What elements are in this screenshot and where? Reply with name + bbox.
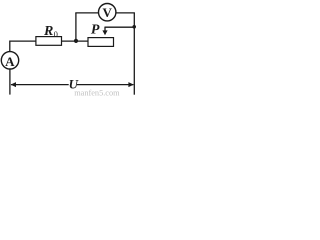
svg-text:0: 0 — [54, 29, 58, 39]
svg-text:R: R — [43, 24, 53, 39]
wire left rail lower — [9, 69, 11, 95]
ammeter A1 — [1, 52, 18, 69]
wire to voltmeter left — [75, 12, 98, 14]
U dimension arrow left segment — [11, 84, 69, 86]
wire top-left horizontal — [10, 40, 36, 42]
wire left rail upper — [9, 41, 11, 52]
wire right rail — [133, 13, 135, 95]
node slider junction dot — [132, 25, 136, 29]
svg-text:P: P — [91, 23, 100, 38]
rheostat slider arrow — [104, 27, 106, 31]
resistor R0 — [36, 37, 62, 46]
wire resistor to rheostat — [62, 40, 89, 42]
rheostat P box — [88, 38, 114, 47]
voltmeter V1 — [99, 4, 116, 21]
svg-text:manfen5.com: manfen5.com — [74, 88, 120, 97]
svg-text:A: A — [5, 54, 15, 69]
wire junction up — [75, 13, 77, 41]
wire voltmeter right — [116, 12, 135, 14]
U dimension arrow right segment — [77, 84, 133, 86]
svg-text:V: V — [103, 5, 113, 20]
wire slider to rail — [105, 26, 134, 28]
node junction dot — [74, 39, 78, 43]
